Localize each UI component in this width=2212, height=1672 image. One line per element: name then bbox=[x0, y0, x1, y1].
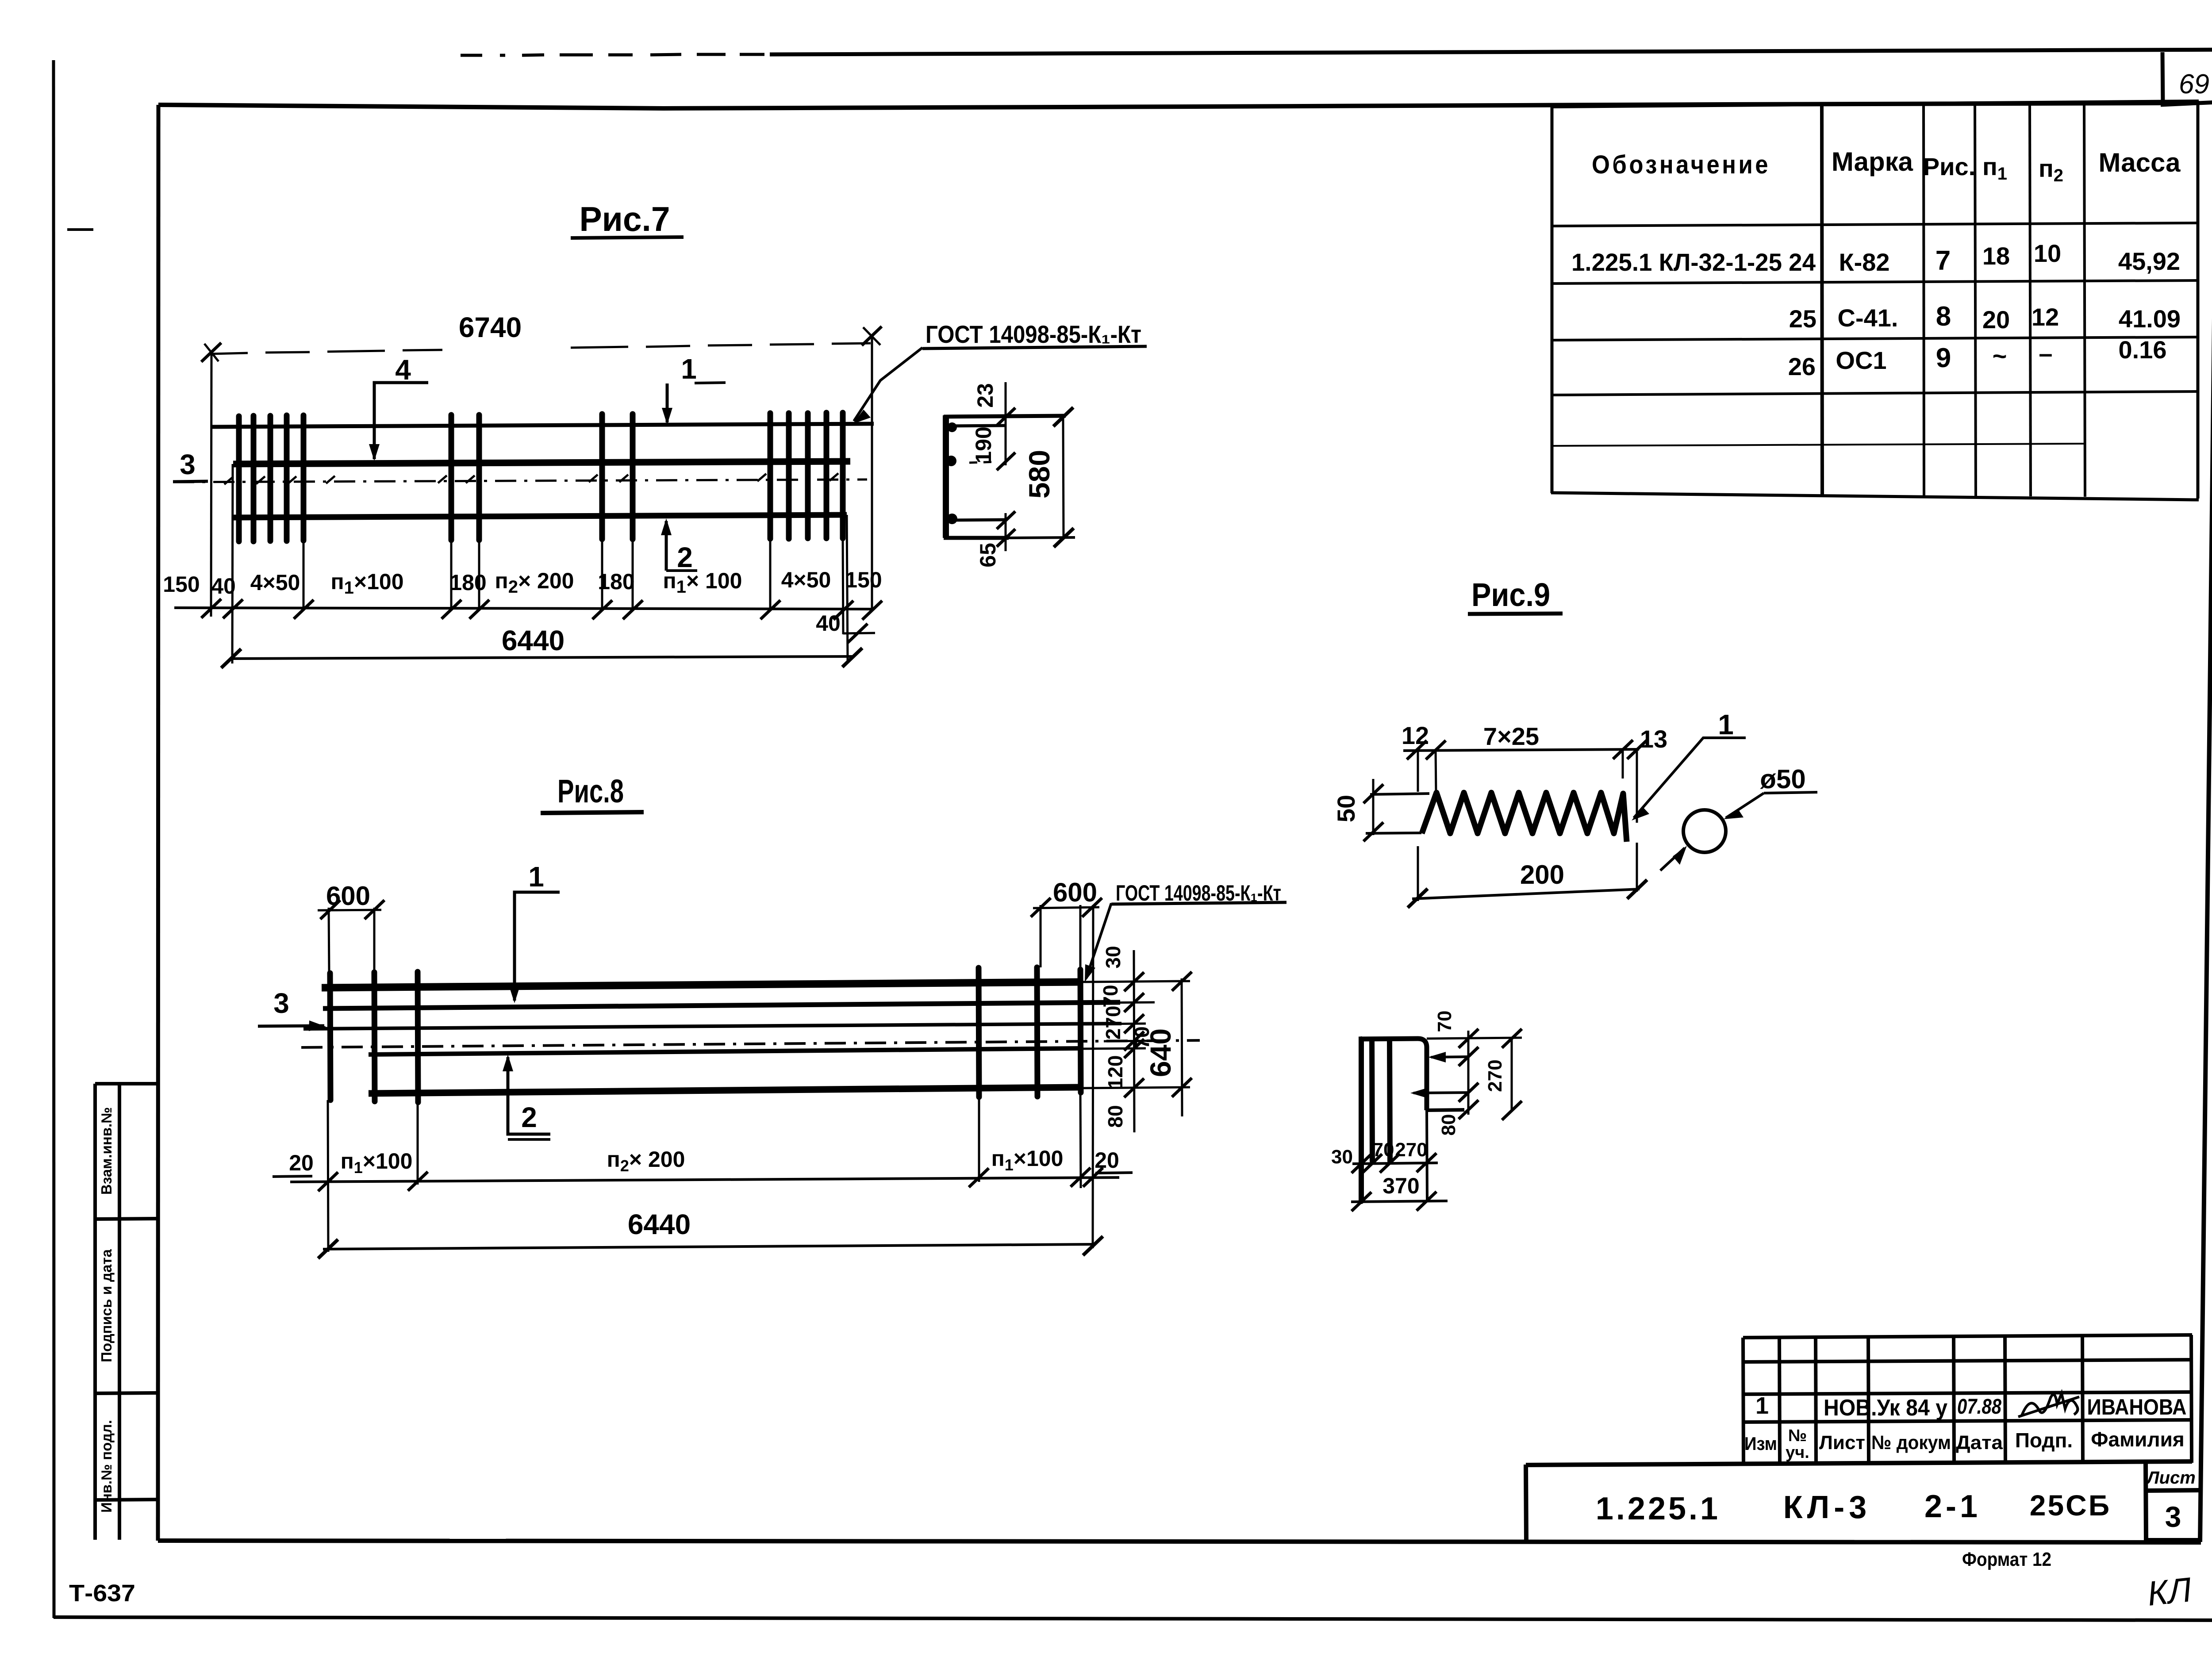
svg-text:Лист: Лист bbox=[2146, 1468, 2196, 1488]
svg-text:26: 26 bbox=[1788, 353, 1816, 380]
svg-text:Масса: Масса bbox=[2099, 148, 2181, 177]
svg-text:ИВАНОВА: ИВАНОВА bbox=[2087, 1395, 2187, 1419]
svg-text:200: 200 bbox=[1520, 860, 1564, 890]
svg-text:640: 640 bbox=[1144, 1028, 1177, 1077]
svg-text:п1: п1 bbox=[1982, 153, 2007, 184]
svg-text:6440: 6440 bbox=[502, 625, 565, 656]
svg-text:580: 580 bbox=[1023, 450, 1056, 499]
svg-text:4: 4 bbox=[395, 354, 411, 386]
svg-text:30: 30 bbox=[1331, 1146, 1353, 1168]
svg-text:370: 370 bbox=[1382, 1173, 1419, 1198]
svg-text:К-82: К-82 bbox=[1839, 248, 1889, 276]
svg-text:70: 70 bbox=[1434, 1011, 1455, 1032]
svg-text:п1×100: п1×100 bbox=[341, 1149, 413, 1177]
svg-text:0.16: 0.16 bbox=[2119, 336, 2167, 364]
svg-text:Инв.№ подл.: Инв.№ подл. bbox=[98, 1420, 115, 1513]
svg-text:1: 1 bbox=[1755, 1392, 1769, 1419]
svg-text:41.09: 41.09 bbox=[2119, 305, 2181, 333]
svg-text:Марка: Марка bbox=[1832, 147, 1913, 176]
svg-text:Рис.: Рис. bbox=[1923, 153, 1975, 180]
svg-text:1: 1 bbox=[1718, 709, 1734, 740]
svg-text:50: 50 bbox=[1332, 795, 1360, 822]
svg-text:1: 1 bbox=[681, 353, 697, 385]
svg-text:150: 150 bbox=[163, 572, 200, 597]
svg-text:180: 180 bbox=[449, 570, 486, 595]
svg-text:1: 1 bbox=[528, 861, 544, 893]
svg-text:№ докум: № докум bbox=[1871, 1432, 1951, 1453]
svg-text:п1×100: п1×100 bbox=[330, 569, 403, 598]
svg-text:65: 65 bbox=[975, 543, 1000, 568]
svg-text:180: 180 bbox=[598, 569, 634, 594]
svg-text:80: 80 bbox=[1104, 1105, 1127, 1127]
svg-text:–: – bbox=[2039, 339, 2052, 367]
svg-text:10: 10 bbox=[2034, 239, 2061, 267]
svg-text:40: 40 bbox=[816, 611, 841, 636]
svg-text:п1× 100: п1× 100 bbox=[663, 568, 742, 597]
svg-text:30: 30 bbox=[1102, 946, 1125, 968]
svg-text:07.88: 07.88 bbox=[1957, 1395, 2001, 1419]
svg-text:п2× 200: п2× 200 bbox=[495, 568, 574, 597]
svg-text:9: 9 bbox=[1936, 343, 1951, 373]
svg-text:12: 12 bbox=[2032, 303, 2059, 331]
svg-text:69: 69 bbox=[2179, 69, 2209, 100]
svg-text:3: 3 bbox=[180, 449, 196, 480]
svg-text:ОС1: ОС1 bbox=[1836, 346, 1886, 374]
svg-text:20: 20 bbox=[289, 1150, 314, 1175]
svg-text:2: 2 bbox=[521, 1101, 537, 1133]
svg-text:КЛ-3: КЛ-3 bbox=[1783, 1490, 1871, 1525]
svg-text:4×50: 4×50 bbox=[250, 570, 300, 595]
svg-text:4×50: 4×50 bbox=[781, 568, 831, 592]
svg-text:НОВ.Ук 84 у: НОВ.Ук 84 у bbox=[1824, 1395, 1947, 1421]
svg-text:12: 12 bbox=[1402, 721, 1429, 749]
svg-text:70: 70 bbox=[1373, 1139, 1394, 1161]
svg-text:270: 270 bbox=[1102, 1006, 1125, 1040]
svg-text:Фамилия: Фамилия bbox=[2091, 1428, 2185, 1451]
svg-text:Подпись и дата: Подпись и дата bbox=[98, 1249, 115, 1362]
svg-text:Формат 12: Формат 12 bbox=[1962, 1549, 2051, 1570]
svg-text:Взам.инв.№: Взам.инв.№ bbox=[98, 1107, 115, 1195]
svg-text:20: 20 bbox=[1094, 1148, 1119, 1173]
svg-text:80: 80 bbox=[1438, 1114, 1459, 1136]
svg-text:270: 270 bbox=[1395, 1139, 1427, 1161]
svg-text:Изм: Изм bbox=[1744, 1433, 1777, 1454]
svg-text:С-41.: С-41. bbox=[1838, 304, 1898, 332]
svg-text:1.225.1 КЛ-32-1-25 24: 1.225.1 КЛ-32-1-25 24 bbox=[1571, 248, 1816, 276]
svg-text:Лист: Лист bbox=[1819, 1432, 1865, 1453]
svg-text:18: 18 bbox=[1982, 242, 2010, 270]
svg-text:Обозначение: Обозначение bbox=[1592, 150, 1770, 179]
svg-text:уч.: уч. bbox=[1786, 1443, 1809, 1462]
svg-text:25СБ: 25СБ bbox=[2030, 1489, 2112, 1522]
svg-text:25: 25 bbox=[1789, 305, 1816, 333]
svg-text:Т-637: Т-637 bbox=[69, 1580, 135, 1607]
svg-text:40: 40 bbox=[211, 574, 236, 598]
svg-text:20: 20 bbox=[1982, 306, 2010, 334]
svg-text:п1×100: п1×100 bbox=[991, 1146, 1064, 1174]
svg-text:Рис.9: Рис.9 bbox=[1471, 576, 1550, 613]
svg-text:8: 8 bbox=[1936, 301, 1951, 332]
svg-text:13: 13 bbox=[1640, 725, 1667, 753]
svg-text:6440: 6440 bbox=[628, 1208, 691, 1240]
svg-text:1.225.1: 1.225.1 bbox=[1596, 1491, 1720, 1526]
svg-text:45,92: 45,92 bbox=[2118, 247, 2180, 275]
svg-text:270: 270 bbox=[1484, 1059, 1506, 1092]
svg-text:120: 120 bbox=[1104, 1055, 1127, 1089]
svg-text:600: 600 bbox=[1053, 878, 1097, 907]
svg-text:~: ~ bbox=[1993, 342, 2007, 370]
svg-text:3: 3 bbox=[2165, 1500, 2181, 1533]
svg-text:7×25: 7×25 bbox=[1483, 722, 1539, 750]
svg-text:Подп.: Подп. bbox=[2015, 1429, 2073, 1452]
svg-text:КЛ: КЛ bbox=[2146, 1570, 2194, 1613]
svg-text:Дата: Дата bbox=[1956, 1432, 2003, 1453]
svg-text:190: 190 bbox=[971, 426, 996, 463]
svg-text:Рис.8: Рис.8 bbox=[557, 773, 624, 809]
svg-text:3: 3 bbox=[273, 987, 289, 1019]
svg-text:№: № bbox=[1788, 1427, 1807, 1445]
svg-text:2-1: 2-1 bbox=[1924, 1489, 1981, 1524]
svg-text:23: 23 bbox=[973, 383, 998, 408]
svg-text:ø50: ø50 bbox=[1760, 764, 1805, 794]
svg-text:150: 150 bbox=[845, 568, 882, 592]
svg-text:п2: п2 bbox=[2039, 154, 2063, 185]
svg-text:7: 7 bbox=[1935, 245, 1951, 276]
svg-text:п2× 200: п2× 200 bbox=[607, 1147, 685, 1175]
svg-text:Рис.7: Рис.7 bbox=[580, 199, 670, 238]
svg-text:6740: 6740 bbox=[459, 311, 522, 343]
svg-text:ГОСТ 14098-85-К₁-Кт: ГОСТ 14098-85-К₁-Кт bbox=[926, 320, 1141, 348]
svg-text:70: 70 bbox=[1099, 985, 1122, 1007]
